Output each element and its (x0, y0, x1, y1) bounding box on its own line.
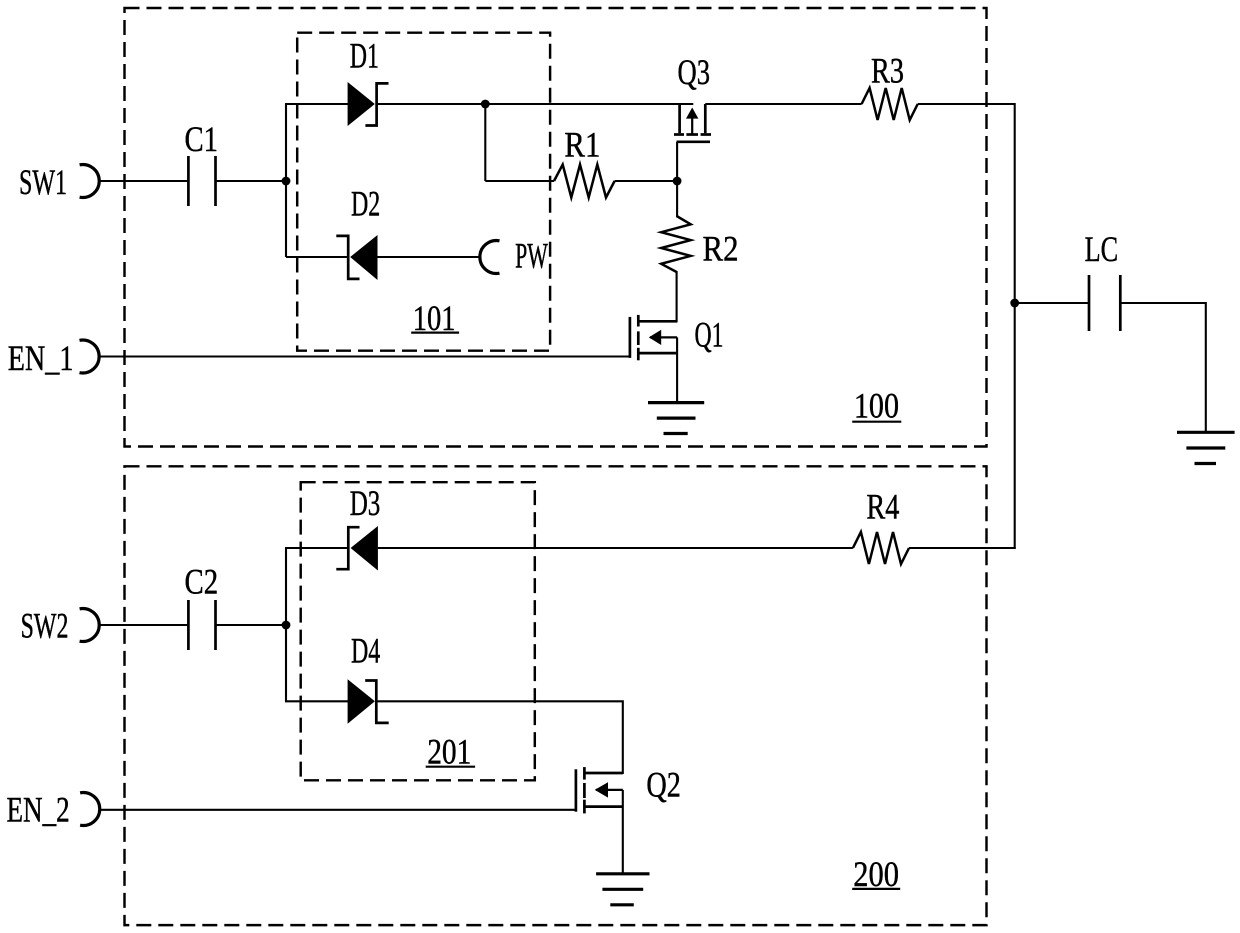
wire node A to D2 (286, 256, 348, 258)
wire EN_1 to Q1 gate (99, 355, 630, 357)
ground (LC) (1177, 432, 1235, 463)
svg-text:R3: R3 (871, 51, 904, 91)
wire Q1 source to ground (676, 337, 678, 402)
wire right bus vertical (1014, 103, 1016, 549)
wire SW1 to C1 (99, 180, 188, 182)
wire D3 to R4 (378, 547, 853, 549)
wire node E to D3 (285, 547, 348, 549)
svg-text:C1: C1 (185, 119, 219, 159)
diode D4 (348, 631, 389, 724)
wire D2 to PW (378, 256, 481, 258)
dashed box 100 (125, 8, 987, 447)
terminal SW2 (21, 605, 100, 645)
transistor Q3 (674, 52, 711, 142)
terminal EN_2 (7, 790, 100, 830)
wire node B down (484, 104, 486, 181)
wire LC to ground column (1120, 303, 1206, 432)
label 100 (852, 385, 901, 425)
svg-text:Q3: Q3 (678, 52, 711, 92)
wire R2 to Q1 drain (676, 271, 678, 322)
diode D1 (348, 36, 389, 126)
node D junction dot (1010, 299, 1019, 308)
transistor Q1 (630, 315, 724, 361)
svg-text:D2: D2 (351, 183, 380, 223)
svg-text:SW2: SW2 (21, 605, 69, 645)
wire EN_2 to Q2 gate (100, 809, 576, 811)
wire Q3 drain to R3 (705, 103, 861, 105)
wire Q3 gate to node C (676, 142, 678, 181)
wire C2 to node E (216, 624, 287, 626)
wire node C to R2 (676, 181, 678, 217)
wire D1 to node B (377, 103, 486, 105)
svg-text:D3: D3 (350, 483, 381, 523)
wire R3 to right bus (918, 103, 1015, 105)
svg-text:EN_2: EN_2 (7, 790, 70, 830)
ground (Q2) (596, 874, 649, 905)
terminal EN_1 (8, 338, 99, 378)
svg-text:LC: LC (1085, 229, 1119, 269)
ground (Q1) (648, 403, 704, 434)
svg-text:PW: PW (515, 235, 548, 275)
terminal PW (480, 235, 548, 275)
svg-text:SW1: SW1 (19, 162, 67, 202)
node B junction dot (481, 100, 490, 109)
label 200 (852, 854, 900, 894)
wire node A to D1 (285, 103, 349, 105)
wire R1 to node C (615, 180, 678, 182)
node E junction dot (282, 621, 291, 630)
wire node E to D4 (285, 700, 349, 702)
resistor R4 (853, 487, 909, 564)
wire node A vertical branch (285, 104, 287, 257)
wire Q2 source to ground (622, 790, 624, 874)
diode D2 (336, 183, 380, 280)
dashed box 200 (125, 466, 987, 925)
svg-text:100: 100 (854, 385, 899, 425)
wire SW2 to C2 (99, 624, 188, 626)
svg-text:R1: R1 (564, 125, 600, 165)
wire node E vertical branch (285, 548, 287, 701)
svg-text:R2: R2 (703, 229, 739, 269)
dashed box 101 (297, 33, 550, 351)
wire node B to Q3 source (485, 103, 693, 105)
resistor R1 (554, 125, 615, 198)
wire R4 to right bus (909, 547, 1016, 549)
terminal SW1 (19, 162, 99, 202)
dashed box 201 (301, 482, 535, 780)
resistor R3 (862, 51, 918, 121)
svg-text:D1: D1 (350, 36, 379, 76)
wire to R1 (485, 180, 554, 182)
svg-text:R4: R4 (866, 487, 899, 527)
wire D4 to Q2 drain (376, 701, 623, 774)
capacitor C1 (185, 119, 219, 206)
svg-text:EN_1: EN_1 (8, 338, 74, 378)
svg-text:Q2: Q2 (646, 765, 681, 805)
wire node D to LC (1015, 302, 1089, 304)
svg-text:D4: D4 (351, 631, 380, 671)
label 201 (426, 732, 475, 772)
capacitor LC (1085, 229, 1121, 331)
svg-text:C2: C2 (185, 562, 219, 602)
transistor Q2 (576, 765, 681, 814)
capacitor C2 (185, 562, 219, 651)
node A junction dot (282, 177, 291, 186)
diode D3 (336, 483, 380, 571)
svg-text:Q1: Q1 (695, 315, 724, 355)
wire C1 to node A (216, 180, 287, 182)
svg-text:201: 201 (427, 732, 471, 772)
node C junction dot (673, 177, 682, 186)
label 101 (411, 298, 459, 338)
resistor R2 (661, 216, 738, 272)
